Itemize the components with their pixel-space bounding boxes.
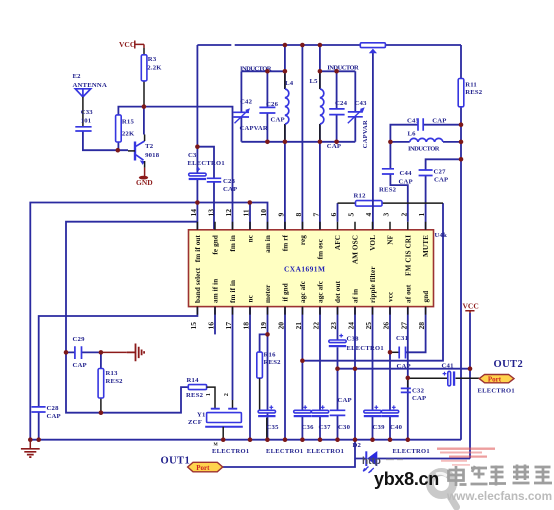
vcc symbol top left — [119, 40, 144, 49]
capacitor C45 — [407, 118, 447, 131]
potentiometer tuning capvar on rail — [360, 43, 385, 54]
svg-text:AM OSC: AM OSC — [352, 235, 360, 264]
wire pin25 column with C39 — [372, 307, 374, 440]
node rail C35 — [265, 437, 270, 442]
svg-text:22: 22 — [312, 322, 321, 330]
wire C31 right lead up to pin28 — [406, 307, 426, 353]
svg-text:C36: C36 — [302, 424, 315, 431]
svg-text:fm rf: fm rf — [282, 234, 290, 251]
svg-text:Port: Port — [488, 376, 502, 384]
svg-text:C41: C41 — [442, 363, 454, 370]
svg-text:15: 15 — [189, 322, 198, 330]
svg-text:FM CIS CRI: FM CIS CRI — [404, 235, 412, 276]
ground symbol bottom left — [21, 440, 40, 458]
wire R12 leads — [338, 202, 444, 204]
watermark http text — [362, 456, 403, 467]
svg-text:16: 16 — [207, 322, 216, 330]
wire pin18 column to rail — [249, 307, 251, 440]
node pin27 C41 — [406, 376, 411, 381]
node right bus C45 — [459, 122, 464, 127]
capacitor C32 — [401, 378, 427, 402]
node bus2 C29 — [64, 350, 69, 355]
wire pin15 to C28 — [39, 307, 198, 440]
node collector R3/R15/Q2/pin12 — [142, 104, 147, 109]
node C45/L6/C44 — [388, 140, 393, 145]
svg-text:AFC: AFC — [334, 235, 342, 250]
svg-text:3: 3 — [382, 213, 391, 217]
electrolytic C36 — [294, 405, 314, 431]
resistor R16 — [257, 352, 281, 440]
electrolytic C37 — [311, 405, 331, 431]
wire tank2 top — [320, 70, 355, 72]
svg-text:CAP: CAP — [223, 186, 237, 193]
capacitor C26 — [259, 101, 284, 124]
node R13 bottom — [99, 410, 104, 415]
capacitor C28 — [32, 405, 61, 420]
svg-text:nc: nc — [247, 234, 255, 242]
wire C42 branch — [240, 71, 242, 142]
svg-text:CAP: CAP — [327, 143, 341, 150]
svg-text:17: 17 — [224, 322, 233, 330]
svg-text:18: 18 — [242, 322, 251, 330]
svg-text:R16: R16 — [264, 352, 277, 359]
svg-text:C3: C3 — [188, 152, 197, 159]
node right bus L6 — [459, 140, 464, 145]
capacitor C29 — [73, 336, 87, 369]
capacitor C33 — [75, 109, 93, 131]
svg-text:OUT2: OUT2 — [494, 359, 524, 370]
svg-text:fe gnd: fe gnd — [212, 235, 220, 255]
svg-text:af out: af out — [404, 284, 412, 303]
wire af-in vcc link — [338, 368, 471, 370]
node rail C30 — [335, 437, 340, 442]
node rail C37 — [318, 437, 323, 442]
wire pin6 to R12 — [337, 203, 339, 222]
svg-text:CAPVAR: CAPVAR — [362, 120, 369, 148]
svg-text:1: 1 — [417, 213, 426, 217]
node tank2 bottom L5 — [318, 140, 323, 145]
wire pin22 column with C37 — [319, 307, 321, 440]
wire C29 leads — [66, 352, 101, 368]
node rail pin27 — [406, 437, 411, 442]
watermark elecfans grey CJK logo — [449, 465, 553, 487]
wire pin17 column to Y1 — [232, 307, 234, 400]
svg-text:4: 4 — [364, 213, 373, 217]
svg-text:1: 1 — [205, 393, 212, 396]
gnd symbol right of C29 — [101, 344, 145, 362]
node rail pin24 D2 — [353, 437, 358, 442]
wire top tuning rail — [197, 44, 461, 46]
svg-text:CAP: CAP — [412, 395, 426, 402]
svg-text:C44: C44 — [400, 170, 413, 177]
svg-text:R13: R13 — [106, 370, 119, 377]
node vcc line link — [468, 366, 473, 371]
node rail C28 — [36, 437, 41, 442]
svg-text:INDUCTOR: INDUCTOR — [327, 65, 359, 72]
svg-text:VCC: VCC — [119, 40, 135, 49]
electrolytic labels bottom row — [212, 448, 430, 455]
svg-text:www.elecfans.com: www.elecfans.com — [446, 489, 552, 503]
svg-text:2.2K: 2.2K — [147, 65, 162, 72]
svg-text:8: 8 — [294, 213, 303, 217]
wire pin8 column from rail — [301, 45, 303, 230]
svg-text:C30: C30 — [338, 424, 351, 431]
svg-text:C27: C27 — [434, 169, 447, 176]
svg-text:band select: band select — [194, 267, 202, 303]
svg-text:Y1: Y1 — [197, 412, 206, 419]
svg-text:R3: R3 — [148, 56, 157, 63]
node tank1 top L4 — [283, 69, 288, 74]
svg-text:12: 12 — [224, 209, 233, 217]
svg-text:2: 2 — [223, 393, 230, 396]
port OUT1 — [161, 456, 223, 472]
resistor R13 — [98, 369, 123, 399]
pin stubs bottom — [197, 307, 425, 315]
svg-text:fm in: fm in — [229, 235, 237, 252]
wire L5 pin7 column — [319, 45, 321, 230]
svg-text:C24: C24 — [335, 100, 348, 107]
wire pin14 column from rail to C3 and to IC — [196, 45, 198, 230]
port OUT2 — [479, 359, 523, 384]
svg-text:6: 6 — [329, 213, 338, 217]
inductor label tank2 — [327, 65, 359, 72]
svg-text:22K: 22K — [122, 131, 135, 138]
wire C31 left lead at pin26 — [390, 351, 399, 353]
svg-text:CAP: CAP — [73, 362, 87, 369]
watermark ybx8.cn — [374, 469, 439, 489]
node tank2 top C24 — [334, 69, 339, 74]
node tank2 top L5 — [318, 69, 323, 74]
node rail pin7 — [318, 43, 323, 48]
wire R13 bottom — [100, 398, 102, 413]
svg-text:RES2: RES2 — [264, 359, 282, 366]
svg-text:28: 28 — [417, 322, 426, 330]
node tank1 top C26 — [265, 69, 270, 74]
watermark red fuzzy text — [437, 448, 495, 466]
pin numbers bottom row 15..28 — [189, 322, 426, 330]
svg-text:if gnd: if gnd — [282, 283, 290, 301]
wire L4 pin9 column — [284, 45, 286, 230]
svg-text:20: 20 — [277, 322, 286, 330]
svg-text:C37: C37 — [319, 424, 332, 431]
svg-text:ELECTRO1: ELECTRO1 — [212, 448, 249, 455]
svg-text:C29: C29 — [73, 336, 86, 343]
wire pin26 column with C40 — [389, 307, 391, 440]
svg-text:VCC: VCC — [463, 302, 479, 311]
node C3/C23 top — [195, 144, 200, 149]
svg-text:C23: C23 — [223, 178, 236, 185]
svg-text:MUTE: MUTE — [422, 235, 430, 257]
svg-text:ELECTRO1: ELECTRO1 — [478, 388, 515, 395]
svg-text:10: 10 — [259, 209, 268, 217]
svg-text:C38: C38 — [347, 336, 360, 343]
node Q2 base / R15 / C33 — [116, 148, 121, 153]
inductor label tank1 — [240, 66, 272, 73]
svg-text:27: 27 — [399, 322, 408, 330]
wire D2 row — [223, 440, 470, 467]
led D2 — [353, 442, 378, 473]
wire pin23 column C38 C30 — [337, 307, 339, 440]
svg-text:fm if in: fm if in — [229, 280, 237, 303]
svg-text:Port: Port — [196, 464, 210, 472]
wire pin1 C27 to right bus — [426, 159, 461, 230]
svg-text:C33: C33 — [81, 109, 94, 116]
node rail Y1 — [221, 437, 226, 442]
svg-text:VOL: VOL — [369, 235, 377, 251]
node pin14 / bus1 — [195, 200, 200, 205]
electrolytic C35 — [258, 405, 279, 431]
node rail bus1 gnd — [28, 437, 33, 442]
node pin11 / bus1 — [248, 200, 253, 205]
wire C41 leads — [408, 377, 479, 379]
node rail C40 — [388, 437, 393, 442]
svg-text:C28: C28 — [47, 405, 60, 412]
svg-text:13: 13 — [207, 209, 216, 217]
wire antenna/C33 to base node — [83, 132, 128, 151]
svg-text:24: 24 — [347, 322, 356, 330]
svg-text:nc: nc — [247, 294, 255, 302]
svg-text:14: 14 — [189, 209, 198, 217]
wire pin16 stub — [214, 307, 216, 335]
capacitor C24 — [327, 100, 348, 150]
svg-text:OUT1: OUT1 — [161, 456, 191, 467]
svg-text:am in: am in — [264, 235, 272, 253]
svg-text:C31: C31 — [396, 335, 408, 342]
node tank2 bottom C24 — [334, 140, 339, 145]
wire R12 right lead down to pin21 line — [302, 203, 443, 361]
svg-text:CXA1691M: CXA1691M — [284, 265, 325, 274]
svg-text:reg: reg — [299, 235, 307, 245]
node rail C39 — [370, 437, 375, 442]
transistor T2 — [128, 135, 160, 168]
node pin26 C31 — [388, 350, 393, 355]
wire VCC column right side — [469, 313, 471, 459]
capacitor C44 — [382, 169, 413, 186]
wire R15 bottom to base node — [117, 142, 119, 150]
svg-text:L6: L6 — [408, 131, 417, 138]
svg-text:ELECTRO1: ELECTRO1 — [307, 448, 344, 455]
watermark grey logo circle — [430, 472, 457, 507]
svg-text:meter: meter — [264, 284, 272, 303]
svg-text:ybx8.cn: ybx8.cn — [374, 469, 439, 489]
svg-text:R15: R15 — [122, 119, 135, 126]
svg-text:vcc: vcc — [387, 291, 395, 302]
capvar C42 — [233, 99, 268, 133]
node pin23 link — [335, 366, 340, 371]
electrolytic C40 — [381, 405, 402, 431]
svg-text:NF: NF — [387, 234, 395, 244]
resistor R12 — [354, 187, 397, 208]
svg-text:RES2: RES2 — [379, 187, 397, 194]
node rail pin20 — [283, 437, 288, 442]
wire right bus from rail through R11 down to ground rail — [460, 45, 462, 440]
svg-text:CAP: CAP — [338, 397, 352, 404]
wire ground rail bottom — [30, 439, 461, 441]
electrolytic C38 — [329, 334, 384, 352]
node rail pin18 — [248, 437, 253, 442]
electrolytic C39 — [364, 405, 385, 431]
electrolytic C41 — [442, 363, 515, 395]
svg-text:C39: C39 — [373, 424, 386, 431]
svg-text:CAPVAR: CAPVAR — [240, 125, 268, 132]
node rail pin8 — [300, 43, 305, 48]
capacitor C23 — [207, 178, 238, 193]
svg-text:ELECTRO1: ELECTRO1 — [393, 448, 430, 455]
wire jog C3/C23 top plates — [197, 147, 214, 230]
svg-text:L5: L5 — [310, 78, 319, 85]
svg-text:2: 2 — [399, 213, 408, 217]
crystal filter Y1 ZCF — [188, 393, 243, 446]
antenna E2 — [73, 73, 107, 126]
vcc symbol right — [463, 302, 479, 314]
svg-text:7: 7 — [312, 213, 321, 217]
svg-text:5: 5 — [347, 213, 356, 217]
svg-text:9018: 9018 — [145, 152, 160, 159]
wire C45 L6 C44 chain — [390, 125, 461, 222]
svg-text:C42: C42 — [240, 99, 253, 106]
pin labels bottom edge — [194, 266, 430, 303]
svg-text:25: 25 — [364, 322, 373, 330]
svg-text:C35: C35 — [267, 424, 280, 431]
svg-text:INDUCTOR: INDUCTOR — [408, 146, 440, 153]
wire tank1 top — [241, 70, 285, 72]
wire pot wiper to pin4 — [372, 53, 374, 230]
svg-text:U4k: U4k — [435, 232, 448, 239]
resistor R14 — [186, 377, 215, 408]
svg-text:af in: af in — [352, 289, 360, 303]
svg-text:http: http — [362, 456, 381, 467]
svg-text:R11: R11 — [465, 82, 477, 89]
inductor L6 — [408, 131, 443, 153]
resistor R15 — [116, 115, 135, 142]
svg-text:19: 19 — [259, 322, 268, 330]
svg-text:fm osc: fm osc — [317, 238, 325, 259]
svg-text:gnd: gnd — [422, 291, 430, 303]
node rail pin9 — [283, 43, 288, 48]
pin numbers top row 14..1 — [189, 209, 426, 217]
svg-text:R12: R12 — [354, 193, 367, 200]
wire transistor collector node to pin 12 — [118, 107, 232, 230]
svg-text:CAP: CAP — [434, 177, 448, 184]
wire R16 jog from pin19 — [260, 334, 268, 352]
svg-text:ZCF: ZCF — [188, 419, 202, 426]
pin labels top edge — [194, 234, 430, 276]
inductor L4 — [285, 71, 294, 142]
pin stubs top — [197, 222, 425, 230]
svg-text:GND: GND — [136, 178, 153, 187]
svg-text:23: 23 — [329, 322, 338, 330]
wire pin27 column to rail — [407, 307, 409, 440]
svg-text:CAP: CAP — [399, 179, 413, 186]
capacitor C30 — [330, 397, 352, 431]
svg-text:RES2: RES2 — [465, 89, 483, 96]
node tank1 bottom L4 — [283, 140, 288, 145]
node C29/R13 top — [99, 350, 104, 355]
svg-text:ELECTRO1: ELECTRO1 — [188, 160, 225, 167]
wire pin24 column to rail — [354, 307, 356, 440]
gnd symbol under T2 — [136, 168, 153, 187]
wire collector segment — [143, 107, 145, 135]
wire pin21 column with C36 — [301, 307, 303, 440]
capacitor C31 — [396, 335, 411, 370]
svg-text:fm if out: fm if out — [194, 234, 202, 262]
svg-text:agc afc: agc afc — [299, 280, 307, 303]
svg-text:C40: C40 — [390, 424, 403, 431]
svg-text:det out: det out — [334, 280, 342, 303]
node pin19 R16 — [265, 332, 270, 337]
wire bus1 left with horizontal to pins 14,11,10 — [30, 203, 267, 440]
svg-text:21: 21 — [294, 322, 303, 330]
inductor L5 — [310, 71, 324, 142]
node right bus pin1 wire — [459, 157, 464, 162]
watermark elecfans url — [446, 489, 552, 503]
svg-text:D2: D2 — [353, 442, 362, 449]
svg-text:ANTENNA: ANTENNA — [73, 82, 107, 89]
svg-text:26: 26 — [382, 322, 391, 330]
wire bus2 from pin14 column down left side to R13/R14 — [66, 222, 197, 413]
wire pin20 column to rail — [284, 307, 286, 440]
node pin21 R12 wire — [300, 358, 305, 363]
resistor R11 — [458, 79, 483, 107]
node pin24 link — [353, 366, 358, 371]
svg-text:CAP: CAP — [432, 118, 446, 125]
svg-text:ELECTRO1: ELECTRO1 — [347, 345, 384, 352]
svg-text:ripple filter: ripple filter — [369, 266, 377, 303]
svg-text:T2: T2 — [145, 143, 154, 150]
svg-text:R14: R14 — [187, 377, 200, 384]
svg-text:C32: C32 — [412, 388, 425, 395]
wire pin19 column to rail — [267, 307, 269, 440]
svg-text:RES2: RES2 — [106, 378, 124, 385]
svg-text:CAP: CAP — [397, 363, 411, 370]
svg-text:ELECTRO1: ELECTRO1 — [266, 448, 303, 455]
svg-text:CAP: CAP — [47, 413, 61, 420]
op-amp U4k CXA1691M IC body — [189, 230, 448, 307]
svg-text:E2: E2 — [73, 73, 82, 80]
svg-text:RES2: RES2 — [186, 392, 204, 399]
node tank1 bottom C26 — [265, 140, 270, 145]
wire C24 branch — [336, 71, 338, 142]
svg-text:C43: C43 — [355, 100, 368, 107]
wire tank bottoms joined — [241, 141, 355, 143]
svg-text:9: 9 — [277, 213, 286, 217]
svg-text:CAP: CAP — [271, 117, 285, 124]
svg-text:11: 11 — [242, 209, 251, 216]
wire C26 branch — [266, 71, 268, 142]
node rail C36 — [300, 437, 305, 442]
svg-text:agc afc: agc afc — [317, 280, 325, 303]
svg-text:101: 101 — [81, 118, 92, 125]
svg-text:L4: L4 — [285, 80, 294, 87]
capvar C43 — [348, 100, 369, 148]
resistor R3 — [141, 48, 162, 107]
capacitor C27 — [419, 169, 449, 184]
electrolytic C3 — [188, 152, 225, 180]
svg-text:am if in: am if in — [212, 279, 220, 303]
wire C43 branch — [354, 71, 356, 142]
